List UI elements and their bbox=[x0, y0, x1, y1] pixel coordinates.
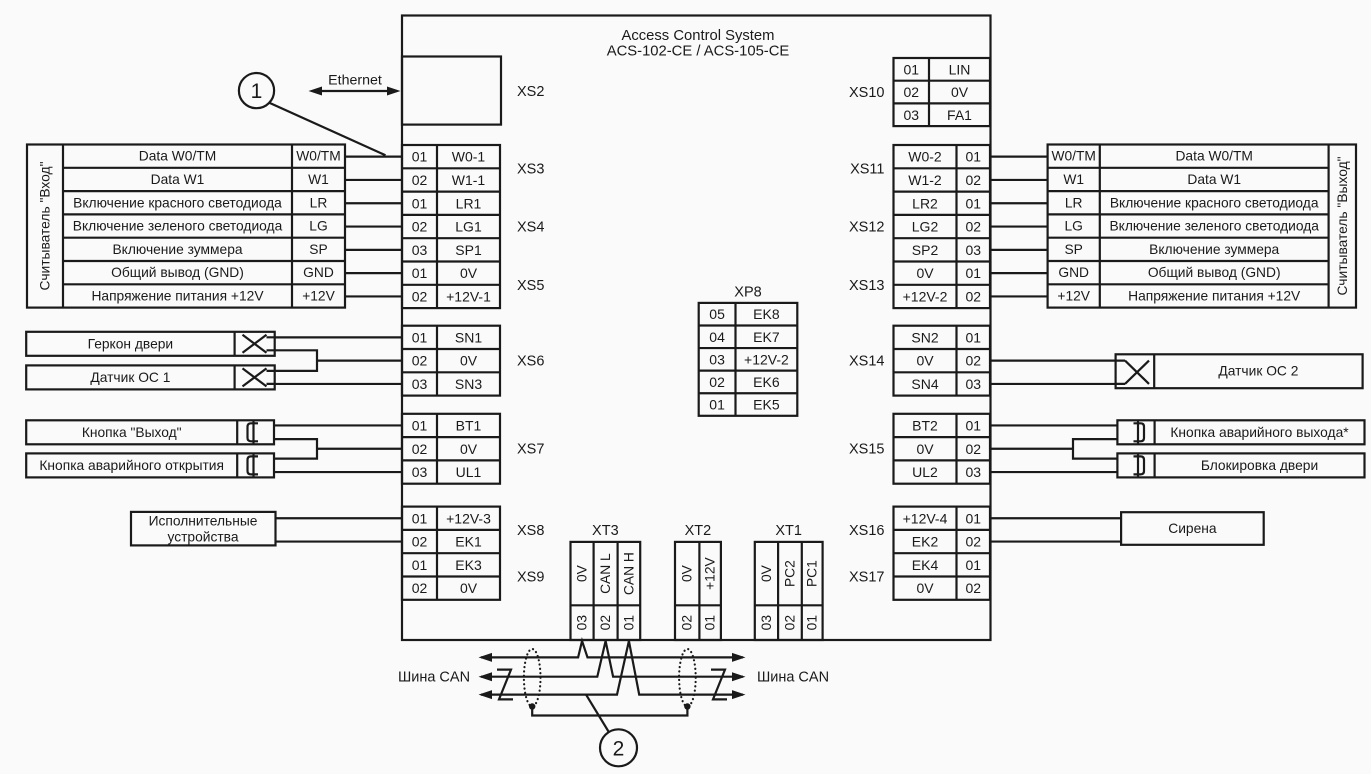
svg-text:LIN: LIN bbox=[949, 61, 971, 77]
svg-text:W0-2: W0-2 bbox=[908, 149, 942, 165]
svg-text:Кнопка "Выход": Кнопка "Выход" bbox=[82, 425, 182, 440]
svg-text:01: 01 bbox=[965, 149, 981, 165]
svg-text:03: 03 bbox=[965, 464, 981, 480]
svg-text:02: 02 bbox=[965, 353, 981, 369]
svg-text:Блокировка двери: Блокировка двери bbox=[1201, 458, 1318, 473]
svg-text:LR2: LR2 bbox=[912, 195, 938, 211]
svg-text:01: 01 bbox=[709, 397, 725, 413]
svg-text:PC2: PC2 bbox=[782, 560, 797, 587]
svg-text:Сирена: Сирена bbox=[1168, 521, 1217, 536]
svg-text:SN2: SN2 bbox=[911, 329, 938, 345]
svg-text:04: 04 bbox=[709, 329, 725, 345]
svg-text:+12V-1: +12V-1 bbox=[446, 288, 491, 304]
svg-text:XS7: XS7 bbox=[517, 442, 544, 458]
svg-text:0V: 0V bbox=[916, 580, 934, 596]
svg-text:01: 01 bbox=[903, 61, 919, 77]
svg-text:01: 01 bbox=[412, 265, 428, 281]
svg-text:LG2: LG2 bbox=[912, 219, 939, 235]
svg-text:03: 03 bbox=[575, 615, 590, 631]
svg-text:W1: W1 bbox=[1063, 172, 1084, 187]
svg-text:XS3: XS3 bbox=[517, 161, 544, 177]
svg-text:+12V: +12V bbox=[1057, 288, 1090, 303]
svg-text:Включение зуммера: Включение зуммера bbox=[1149, 242, 1279, 257]
svg-text:LG: LG bbox=[1064, 219, 1082, 234]
svg-text:EK3: EK3 bbox=[455, 557, 482, 573]
svg-text:02: 02 bbox=[965, 580, 981, 596]
svg-text:W0/TM: W0/TM bbox=[296, 149, 340, 164]
svg-text:W0/TM: W0/TM bbox=[1051, 149, 1095, 164]
svg-text:0V: 0V bbox=[460, 353, 478, 369]
svg-text:01: 01 bbox=[412, 149, 428, 165]
svg-text:PC1: PC1 bbox=[805, 560, 820, 587]
svg-text:Включение красного светодиода: Включение красного светодиода bbox=[73, 195, 282, 210]
svg-text:XS13: XS13 bbox=[849, 278, 884, 294]
svg-text:SP: SP bbox=[1064, 242, 1082, 257]
svg-text:Включение красного светодиода: Включение красного светодиода bbox=[1110, 195, 1319, 210]
svg-text:Ethernet: Ethernet bbox=[328, 73, 382, 89]
svg-text:W1: W1 bbox=[308, 172, 329, 187]
svg-text:02: 02 bbox=[412, 172, 428, 188]
svg-text:LR1: LR1 bbox=[456, 195, 482, 211]
svg-text:03: 03 bbox=[412, 242, 428, 258]
svg-text:LR: LR bbox=[310, 195, 328, 210]
svg-text:02: 02 bbox=[709, 374, 725, 390]
svg-text:SN4: SN4 bbox=[911, 376, 938, 392]
svg-text:02: 02 bbox=[965, 288, 981, 304]
svg-text:01: 01 bbox=[965, 195, 981, 211]
svg-text:Кнопка аварийного выхода*: Кнопка аварийного выхода* bbox=[1170, 425, 1349, 440]
svg-text:Включение зуммера: Включение зуммера bbox=[112, 242, 242, 257]
svg-text:03: 03 bbox=[709, 351, 725, 367]
svg-text:01: 01 bbox=[965, 417, 981, 433]
svg-text:02: 02 bbox=[782, 615, 797, 630]
svg-text:02: 02 bbox=[412, 534, 428, 550]
svg-text:0V: 0V bbox=[916, 265, 934, 281]
svg-text:CAN L: CAN L bbox=[598, 553, 613, 594]
svg-text:02: 02 bbox=[903, 84, 919, 100]
svg-text:+12V: +12V bbox=[302, 288, 335, 303]
svg-text:03: 03 bbox=[903, 107, 919, 123]
svg-text:W0-1: W0-1 bbox=[452, 149, 486, 165]
svg-text:ACS-102-CE / ACS-105-CE: ACS-102-CE / ACS-105-CE bbox=[607, 44, 790, 60]
svg-text:03: 03 bbox=[759, 615, 774, 631]
svg-text:0V: 0V bbox=[575, 564, 590, 582]
svg-text:SP1: SP1 bbox=[455, 242, 482, 258]
svg-text:EK6: EK6 bbox=[753, 374, 780, 390]
svg-text:Data W1: Data W1 bbox=[151, 172, 205, 187]
svg-text:02: 02 bbox=[412, 288, 428, 304]
svg-text:EK2: EK2 bbox=[912, 534, 939, 550]
svg-text:XS2: XS2 bbox=[517, 84, 544, 100]
svg-text:Шина CAN: Шина CAN bbox=[398, 670, 470, 686]
svg-text:02: 02 bbox=[965, 219, 981, 235]
svg-text:+12V-3: +12V-3 bbox=[446, 510, 491, 526]
svg-text:Data W0/TM: Data W0/TM bbox=[139, 149, 216, 164]
svg-text:02: 02 bbox=[965, 534, 981, 550]
svg-text:W1-1: W1-1 bbox=[452, 172, 486, 188]
svg-text:01: 01 bbox=[805, 615, 820, 630]
svg-text:BT1: BT1 bbox=[456, 417, 482, 433]
svg-text:01: 01 bbox=[965, 510, 981, 526]
svg-text:03: 03 bbox=[965, 376, 981, 392]
svg-text:+12V-4: +12V-4 bbox=[903, 510, 948, 526]
svg-text:0V: 0V bbox=[680, 564, 695, 582]
svg-text:EK8: EK8 bbox=[753, 306, 780, 322]
svg-text:SP2: SP2 bbox=[912, 242, 939, 258]
svg-text:02: 02 bbox=[412, 353, 428, 369]
svg-text:Access Control System: Access Control System bbox=[622, 28, 775, 44]
svg-text:XS10: XS10 bbox=[849, 85, 884, 101]
svg-text:UL2: UL2 bbox=[912, 464, 938, 480]
svg-text:устройства: устройства bbox=[167, 529, 238, 544]
svg-text:03: 03 bbox=[412, 376, 428, 392]
svg-text:XS16: XS16 bbox=[849, 523, 884, 539]
svg-text:W1-2: W1-2 bbox=[908, 172, 942, 188]
svg-text:XS6: XS6 bbox=[517, 354, 544, 370]
svg-text:EK1: EK1 bbox=[455, 534, 482, 550]
svg-text:BT2: BT2 bbox=[912, 417, 938, 433]
svg-text:EK7: EK7 bbox=[753, 329, 780, 345]
svg-text:01: 01 bbox=[965, 557, 981, 573]
svg-text:SN1: SN1 bbox=[455, 329, 482, 345]
svg-text:Напряжение питания +12V: Напряжение питания +12V bbox=[91, 288, 264, 303]
svg-text:Исполнительные: Исполнительные bbox=[149, 513, 258, 528]
svg-text:EK4: EK4 bbox=[912, 557, 939, 573]
svg-text:XS9: XS9 bbox=[517, 570, 544, 586]
svg-text:Датчик ОС 1: Датчик ОС 1 bbox=[90, 370, 170, 385]
svg-text:Data W0/TM: Data W0/TM bbox=[1175, 149, 1252, 164]
svg-text:0V: 0V bbox=[916, 353, 934, 369]
svg-text:02: 02 bbox=[412, 441, 428, 457]
svg-text:01: 01 bbox=[412, 195, 428, 211]
svg-text:Data W1: Data W1 bbox=[1187, 172, 1241, 187]
svg-text:+12V: +12V bbox=[703, 557, 718, 590]
svg-text:XT3: XT3 bbox=[592, 523, 619, 539]
svg-text:XS8: XS8 bbox=[517, 523, 544, 539]
svg-text:01: 01 bbox=[412, 329, 428, 345]
svg-text:XT1: XT1 bbox=[775, 523, 802, 539]
svg-text:XS15: XS15 bbox=[849, 442, 884, 458]
svg-text:0V: 0V bbox=[460, 265, 478, 281]
svg-text:XS17: XS17 bbox=[849, 570, 884, 586]
svg-text:02: 02 bbox=[680, 615, 695, 630]
svg-text:+12V-2: +12V-2 bbox=[903, 288, 948, 304]
svg-text:0V: 0V bbox=[951, 84, 969, 100]
svg-text:0V: 0V bbox=[460, 441, 478, 457]
svg-text:03: 03 bbox=[965, 242, 981, 258]
svg-text:Шина CAN: Шина CAN bbox=[757, 670, 829, 686]
svg-text:XS5: XS5 bbox=[517, 278, 544, 294]
svg-text:02: 02 bbox=[412, 580, 428, 596]
svg-text:0V: 0V bbox=[916, 441, 934, 457]
svg-text:Включение зеленого светодиода: Включение зеленого светодиода bbox=[73, 219, 283, 234]
svg-text:Геркон двери: Геркон двери bbox=[88, 336, 174, 351]
svg-text:Считыватель "Вход": Считыватель "Вход" bbox=[38, 161, 53, 290]
svg-text:Считыватель "Выход": Считыватель "Выход" bbox=[1335, 156, 1350, 295]
svg-text:02: 02 bbox=[965, 172, 981, 188]
svg-text:02: 02 bbox=[412, 219, 428, 235]
svg-text:Общий вывод (GND): Общий вывод (GND) bbox=[111, 265, 244, 280]
svg-text:02: 02 bbox=[965, 441, 981, 457]
svg-text:0V: 0V bbox=[460, 580, 478, 596]
svg-text:EK5: EK5 bbox=[753, 397, 780, 413]
svg-text:GND: GND bbox=[1058, 265, 1089, 280]
svg-text:Включение зеленого светодиода: Включение зеленого светодиода bbox=[1109, 219, 1319, 234]
svg-text:FA1: FA1 bbox=[947, 107, 972, 123]
svg-text:LG1: LG1 bbox=[455, 219, 482, 235]
svg-text:XT2: XT2 bbox=[685, 523, 712, 539]
svg-text:UL1: UL1 bbox=[456, 464, 482, 480]
svg-text:2: 2 bbox=[613, 737, 625, 760]
svg-text:01: 01 bbox=[412, 510, 428, 526]
svg-text:GND: GND bbox=[303, 265, 334, 280]
svg-text:XP8: XP8 bbox=[734, 285, 761, 301]
svg-text:01: 01 bbox=[412, 557, 428, 573]
svg-text:SN3: SN3 bbox=[455, 376, 482, 392]
svg-text:Напряжение питания +12V: Напряжение питания +12V bbox=[1128, 288, 1301, 303]
svg-text:+12V-2: +12V-2 bbox=[744, 351, 789, 367]
svg-text:Кнопка аварийного открытия: Кнопка аварийного открытия bbox=[39, 458, 224, 473]
svg-text:01: 01 bbox=[965, 329, 981, 345]
svg-text:XS4: XS4 bbox=[517, 220, 544, 236]
svg-text:05: 05 bbox=[709, 306, 725, 322]
svg-text:LG: LG bbox=[309, 219, 327, 234]
svg-text:1: 1 bbox=[251, 80, 263, 103]
svg-text:02: 02 bbox=[598, 615, 613, 630]
svg-text:XS11: XS11 bbox=[850, 161, 884, 177]
svg-text:XS12: XS12 bbox=[849, 220, 884, 236]
svg-text:01: 01 bbox=[412, 417, 428, 433]
svg-text:03: 03 bbox=[412, 464, 428, 480]
svg-text:Общий вывод (GND): Общий вывод (GND) bbox=[1148, 265, 1281, 280]
svg-text:01: 01 bbox=[703, 615, 718, 630]
svg-text:CAN H: CAN H bbox=[621, 552, 636, 595]
svg-text:LR: LR bbox=[1065, 195, 1083, 210]
svg-text:XS14: XS14 bbox=[849, 354, 884, 370]
svg-text:Датчик ОС 2: Датчик ОС 2 bbox=[1218, 364, 1298, 379]
svg-text:01: 01 bbox=[621, 615, 636, 630]
svg-text:0V: 0V bbox=[759, 564, 774, 582]
svg-text:01: 01 bbox=[965, 265, 981, 281]
svg-text:SP: SP bbox=[309, 242, 327, 257]
